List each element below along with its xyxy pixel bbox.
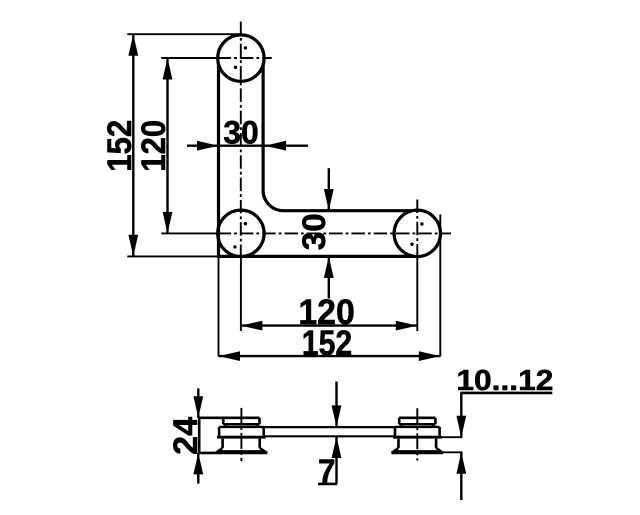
- right fastener lower body sides: [399, 439, 437, 448]
- right fastener cap sides: [399, 418, 435, 424]
- glass plate top line: [264, 426, 395, 428]
- arrow down dim 120 left: [163, 212, 173, 234]
- hole circle right: [394, 210, 440, 256]
- left fastener flange lip line: [218, 450, 264, 452]
- arrow up dim 24: [193, 453, 203, 475]
- svg-text:30: 30: [223, 114, 259, 150]
- right fastener washer top line: [395, 426, 440, 428]
- arrow left dim 152 bottom: [219, 351, 241, 361]
- left fastener neck: [225, 424, 257, 427]
- punch dot corner hole upper: [244, 222, 247, 225]
- extension line left for dim 120 bottom end: [161, 232, 218, 234]
- vertical centerline through top and corner holes: [240, 22, 242, 259]
- arrow down dim 152 left: [128, 235, 138, 256]
- section body left end wall: [198, 418, 201, 453]
- arrow up dim 7: [332, 437, 342, 459]
- arrow up dim 30 middle: [324, 256, 334, 278]
- extension line down from corner hole center: [240, 256, 242, 331]
- centerline left fastener: [240, 408, 242, 461]
- right fastener gasket band: [393, 436, 442, 439]
- dimension line 120 left: [166, 58, 168, 233]
- dimension line 30 middle lower segment: [328, 256, 330, 298]
- right fastener washer sides: [395, 427, 440, 436]
- dimension line 30 top: [187, 144, 308, 146]
- extension line down from right outer edge: [439, 215, 441, 357]
- punch dot top hole lower: [234, 66, 237, 69]
- extension line top for dim 152: [127, 33, 240, 35]
- dimension line 120 bottom: [241, 324, 417, 326]
- punch dot corner hole lower: [233, 245, 236, 248]
- dimension line 10...12 upper segment: [460, 393, 462, 437]
- svg-text:152: 152: [302, 324, 353, 363]
- extension line top for dim 120: [161, 57, 218, 59]
- svg-text:120: 120: [135, 120, 173, 172]
- arrow down dim 24: [193, 396, 203, 418]
- leader shelf line under label 10...12: [460, 392, 552, 395]
- extension line from plate bottom for dim 10...12: [441, 436, 463, 438]
- hole circle top: [218, 35, 264, 81]
- section body top edge left: [198, 416, 259, 419]
- hole circle corner: [218, 210, 264, 256]
- outline outer edge (left edge + bottom edge): [219, 64, 415, 257]
- horizontal centerline corner to right hole: [218, 232, 451, 234]
- dimension line 7 lower segment: [335, 437, 337, 485]
- arrow down dim 10...12: [456, 416, 466, 438]
- svg-text:152: 152: [101, 120, 139, 172]
- punch dot top hole upper: [244, 46, 247, 49]
- arrow down dim 30 middle: [324, 189, 334, 211]
- centerline right fastener: [416, 408, 418, 460]
- right fastener neck: [401, 424, 433, 427]
- dimension line 30 middle upper segment: [328, 168, 330, 210]
- dimension line 10...12 lower segment: [460, 452, 462, 500]
- vertical centerline right hole: [416, 200, 418, 259]
- arrow right dim 152 bottom: [419, 351, 441, 361]
- left fastener washer top line: [219, 426, 264, 428]
- dimension line 152 left: [132, 34, 134, 256]
- punch dot right hole lower: [410, 243, 413, 246]
- extension line down from right hole center: [416, 256, 418, 331]
- horizontal centerline top hole: [218, 57, 272, 59]
- svg-text:24: 24: [167, 417, 205, 455]
- extension line left for dim 152 bottom end: [127, 255, 218, 257]
- dimension line 24 lower segment: [197, 453, 199, 484]
- left fastener cap bottom line: [223, 423, 259, 425]
- svg-text:30: 30: [296, 213, 332, 250]
- arrow down dim 7: [332, 405, 342, 427]
- arrow left dim 120 bottom: [241, 321, 263, 331]
- dimension line 7 upper segment: [335, 382, 337, 427]
- extension line from flange bottom for dim 10...12: [443, 451, 462, 453]
- right fastener flange lip line: [394, 450, 440, 452]
- section body bottom edge left: [199, 452, 215, 455]
- dimension line 152 bottom: [219, 355, 441, 357]
- right fastener cap top line: [399, 416, 435, 419]
- arrow up dim 120 left: [163, 58, 173, 80]
- arrow up dim 152 left: [128, 34, 138, 56]
- extension line down from left outer edge: [218, 256, 220, 356]
- glass plate bottom line: [264, 435, 395, 437]
- right fastener flange slants: [392, 448, 444, 453]
- dimension line 24 upper segment: [197, 389, 199, 418]
- left fastener flange base line: [216, 452, 268, 455]
- arrow left dim 30 top: [265, 141, 287, 151]
- underline of label 7: [318, 483, 337, 486]
- outline inner edge with corner fillet: [263, 64, 412, 211]
- punch dot right hole upper: [420, 222, 423, 225]
- arrow right dim 30 top: [197, 141, 219, 151]
- arrow up dim 10...12: [456, 452, 466, 474]
- right fastener flange base line: [392, 452, 444, 455]
- left fastener flange slants: [216, 448, 268, 453]
- left fastener cap sides: [223, 418, 259, 424]
- left fastener washer sides: [219, 427, 264, 436]
- arrow right dim 120 bottom: [396, 321, 418, 331]
- right fastener cap bottom line: [399, 423, 435, 425]
- left fastener lower body sides: [223, 439, 260, 448]
- left fastener gasket band: [217, 436, 266, 439]
